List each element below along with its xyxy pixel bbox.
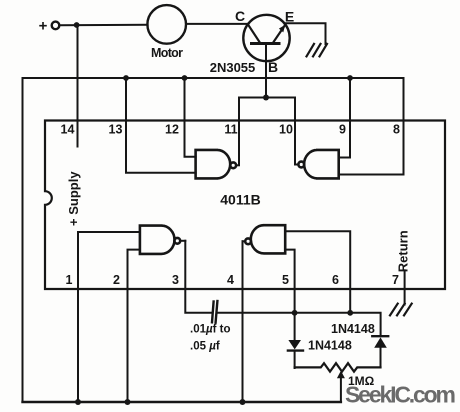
wire top rail motor to transistor collector — [186, 23, 248, 25]
svg-text:11: 11 — [224, 123, 237, 137]
wire top rail left of motor — [59, 24, 147, 26]
svg-text:+: + — [39, 18, 48, 35]
wire pin 8 vertical and gate B lower input — [339, 78, 404, 175]
svg-text:7: 7 — [392, 273, 399, 287]
wire pin 13 vertical and gate A lower input — [126, 78, 196, 173]
svg-text:6: 6 — [332, 273, 339, 287]
svg-text:5: 5 — [282, 273, 289, 287]
node dot pin 4 rail — [240, 399, 246, 405]
svg-text:4011B: 4011B — [220, 192, 260, 208]
ground top right — [307, 44, 328, 57]
resistor wiper arrow — [340, 376, 342, 402]
wire capacitor right to diode corner — [218, 313, 381, 336]
node dot pin 5 — [292, 310, 298, 316]
op gate U1D NAND bottom-middle mirrored — [243, 225, 286, 253]
svg-text:C: C — [235, 8, 245, 24]
svg-text:8: 8 — [393, 123, 400, 137]
op gate U1C NAND bottom-left — [140, 226, 185, 254]
wire gate C lower input to pin 2 — [128, 250, 140, 402]
svg-text:1N4148: 1N4148 — [331, 322, 375, 336]
wire left outer vertical — [22, 78, 24, 402]
wire base split horizontal — [239, 97, 295, 99]
node base junction dot — [263, 95, 269, 101]
resistor R1 1M pot zigzag — [295, 363, 381, 371]
wire pin 7 return stub to ground — [404, 270, 406, 304]
op gate U1A NAND top-left — [196, 150, 239, 179]
node dot pin 9 on y78 — [347, 75, 353, 81]
wire pin 11 vertical to gate A output — [238, 98, 240, 166]
wire pin 9 vertical and gate B upper input — [339, 78, 350, 158]
terminal circle — [52, 22, 60, 30]
wire supply loop horizontal y78 — [23, 77, 404, 79]
motor M1 circle — [147, 5, 186, 44]
wire pin 14 vertical from top rail — [77, 25, 79, 147]
op gate U1B NAND top-right mirrored — [295, 150, 339, 179]
diode D2 right pointing up — [372, 335, 388, 337]
svg-text:3: 3 — [172, 273, 179, 287]
wire gate D output pin 4 down to bottom rail — [242, 241, 244, 402]
svg-text:+ Supply: + Supply — [66, 171, 81, 226]
wire pin 10 vertical to gate B output — [294, 98, 296, 165]
wire gate D lower input to pin 5 — [285, 250, 294, 313]
svg-text:.01µf to: .01µf to — [190, 324, 231, 336]
svg-text:12: 12 — [165, 123, 179, 137]
wire bottom rail — [23, 401, 341, 403]
node dot pin 2 rail — [125, 399, 131, 405]
svg-text:Motor: Motor — [151, 46, 183, 60]
diode D1 left pointing down — [294, 313, 296, 340]
transistor emitter slant with arrow — [273, 25, 285, 43]
svg-text:4: 4 — [227, 273, 234, 287]
wire gate D upper input to pin 6 — [285, 231, 350, 313]
transistor Q1 2N3055 circle — [243, 15, 289, 61]
IC box 4011B with notch — [45, 121, 445, 290]
node dot pin 6 — [347, 310, 353, 316]
node dot pin 13 on y78 — [123, 75, 129, 81]
wire emitter to ground — [286, 23, 326, 44]
svg-text:13: 13 — [109, 123, 123, 137]
svg-text:B: B — [268, 59, 278, 75]
wire pin 12 vertical and gate A upper input — [185, 78, 196, 157]
svg-text:9: 9 — [339, 123, 346, 137]
node dot pin 1 rail — [75, 399, 81, 405]
svg-text:2N3055: 2N3055 — [210, 60, 256, 75]
svg-text:2: 2 — [113, 273, 120, 287]
wire gate C output pin 3 down to capacitor — [185, 241, 211, 313]
svg-text:14: 14 — [61, 123, 75, 137]
svg-text:1: 1 — [66, 273, 73, 287]
capacitor C1 plates — [212, 302, 214, 323]
wire transistor base lead down — [265, 44, 267, 98]
svg-text:Return: Return — [396, 230, 411, 272]
svg-text:SeekIC.com: SeekIC.com — [345, 382, 456, 408]
transistor collector slant — [248, 24, 261, 43]
ground pin 7 — [390, 304, 412, 316]
svg-text:10: 10 — [279, 123, 293, 137]
node supply tap junction dot — [74, 22, 80, 28]
node dot pin 12 on y78 — [182, 75, 188, 81]
svg-text:.05 µf: .05 µf — [190, 341, 220, 353]
svg-text:E: E — [285, 9, 294, 25]
wire gate C upper input to pin 1 — [78, 232, 140, 402]
transistor base bar — [252, 42, 280, 45]
svg-text:1N4148: 1N4148 — [308, 339, 352, 353]
